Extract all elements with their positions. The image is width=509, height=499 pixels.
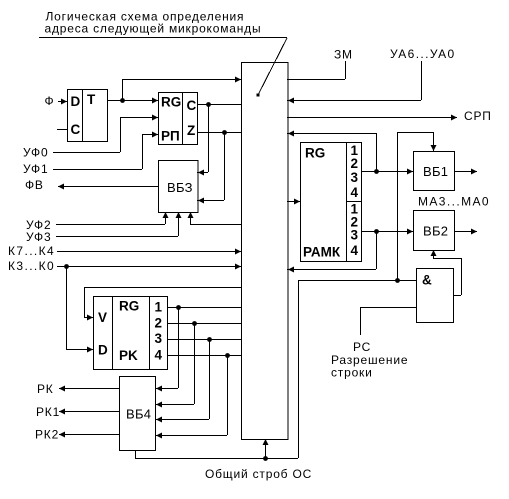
input Ф label xyxy=(45,94,55,108)
wire РК2 output xyxy=(59,432,119,438)
svg-text:РС: РС xyxy=(353,340,371,354)
label RG of RAMK xyxy=(305,146,325,161)
svg-text:РК1: РК1 xyxy=(36,405,60,419)
wire УФ3 to VB3 xyxy=(56,212,182,237)
svg-text:РАМК: РАМК xyxy=(303,245,341,260)
svg-text:ФВ: ФВ xyxy=(25,178,44,192)
label РК2 xyxy=(35,428,59,442)
and gate xyxy=(417,269,454,323)
label УФ0 xyxy=(23,146,48,160)
wire RAMK output 1 branch to decoder xyxy=(287,131,377,172)
label строки xyxy=(331,366,373,380)
wire RAMK output 2 branch to decoder xyxy=(287,231,377,273)
label C output xyxy=(187,98,197,113)
label УФ2 xyxy=(26,218,51,232)
block VB3 xyxy=(159,161,199,213)
wire Z output to decoder xyxy=(197,130,241,135)
svg-text:ВБ2: ВБ2 xyxy=(423,224,448,239)
label Z output xyxy=(187,123,195,138)
svg-text:3: 3 xyxy=(155,331,163,346)
PK pin 3 xyxy=(155,331,163,346)
label RG of PK xyxy=(119,299,139,314)
svg-text:ВБ4: ВБ4 xyxy=(126,407,151,422)
svg-text:1: 1 xyxy=(155,300,163,315)
label К3...К0 xyxy=(8,259,55,273)
title underline xyxy=(39,37,287,39)
wire PK output 2 xyxy=(167,321,241,326)
label VB4 xyxy=(126,407,151,422)
label ЗМ xyxy=(334,48,353,62)
wire decoder to VB3 third input xyxy=(188,212,242,225)
label Разрешение xyxy=(331,353,408,367)
label VB2 xyxy=(423,224,448,239)
svg-text:D: D xyxy=(98,343,108,358)
register RG-RP block xyxy=(159,92,198,145)
label УА6...УА0 xyxy=(390,47,456,61)
wire VB1 output xyxy=(454,169,477,175)
svg-text:К7...К4: К7...К4 xyxy=(8,244,55,258)
wire УФ0 to RG xyxy=(53,115,158,153)
label Общий строб ОС xyxy=(205,467,312,481)
wire decoder to V input xyxy=(84,287,241,321)
PK pin 1 xyxy=(155,300,163,315)
svg-text:К3...К0: К3...К0 xyxy=(8,259,55,273)
wire T output branch to decoder xyxy=(122,77,241,101)
wire СРП output xyxy=(287,115,457,121)
label VB3 xyxy=(167,180,193,195)
wire РК output xyxy=(59,386,119,392)
label К7...К4 xyxy=(8,244,55,258)
wire RAMK output 2 to VB2 xyxy=(361,229,413,235)
svg-text:2: 2 xyxy=(155,316,163,331)
svg-text:4: 4 xyxy=(351,185,359,200)
svg-text:D: D xyxy=(71,94,81,109)
wire VB4 strobe lead xyxy=(135,450,137,458)
svg-text:УФ3: УФ3 xyxy=(26,230,51,244)
svg-text:УФ1: УФ1 xyxy=(23,162,48,176)
svg-text:RG: RG xyxy=(161,95,181,110)
label РС xyxy=(353,340,371,354)
wire and gate output to VB2 xyxy=(431,250,462,296)
wire ФВ output of VB3 xyxy=(58,184,158,190)
wire PK output 1 branch to VB4 xyxy=(155,307,179,392)
svg-text:УФ0: УФ0 xyxy=(23,146,48,160)
RAMK pin 3 group2 xyxy=(351,228,359,243)
block VB4 xyxy=(120,377,156,451)
wire C stub of flip-flop xyxy=(57,129,67,131)
block VB2 xyxy=(414,211,455,251)
label RG of RP register xyxy=(161,95,181,110)
wire decoder to RAMK input xyxy=(287,199,300,205)
PK pin 2 xyxy=(155,316,163,331)
wire strobe to and gate xyxy=(298,278,416,283)
svg-text:2: 2 xyxy=(351,156,359,171)
wire К3...К0 to decoder xyxy=(57,264,241,270)
svg-text:V: V xyxy=(98,310,107,325)
RAMK pin 1 group2 xyxy=(351,202,359,217)
label T xyxy=(87,92,96,107)
svg-text:адреса следующей микрокоманды: адреса следующей микрокоманды xyxy=(45,22,262,36)
RAMK pin 4 group2 xyxy=(351,243,359,258)
label МА3...МА0 xyxy=(418,195,490,209)
label РК xyxy=(37,382,54,396)
RAMK pin 1 group1 xyxy=(351,143,359,158)
label V xyxy=(98,310,107,325)
wire strobe riser xyxy=(298,280,300,458)
wire strobe branch up to VB1 xyxy=(397,132,437,280)
svg-text:РК: РК xyxy=(37,382,54,396)
title line 2 xyxy=(45,22,262,36)
label РК1 xyxy=(36,405,60,419)
wire УФ2 to VB3 xyxy=(56,212,169,225)
wire К7...К4 to decoder xyxy=(57,249,241,255)
central decoder block U1 xyxy=(242,63,289,440)
label СРП xyxy=(464,109,492,123)
svg-text:RG: RG xyxy=(119,299,139,314)
RAMK pin 4 group1 xyxy=(351,185,359,200)
svg-text:Общий строб ОС: Общий строб ОС xyxy=(205,467,312,481)
wire РС to and gate xyxy=(360,307,416,335)
wire РК1 output xyxy=(59,409,119,415)
wire VB2 output xyxy=(454,229,477,235)
label ФВ xyxy=(25,178,44,192)
label C of flip-flop xyxy=(71,122,81,137)
label УФ1 xyxy=(23,162,48,176)
svg-text:T: T xyxy=(87,92,96,107)
RAMK pin 3 group1 xyxy=(351,170,359,185)
wire Z branch to VB3 xyxy=(197,132,225,204)
wire ЗМ to decoder xyxy=(287,61,346,80)
wire strobe to decoder bottom xyxy=(263,439,269,458)
svg-text:ВБ1: ВБ1 xyxy=(423,164,448,179)
wire PK output 3 branch to VB4 xyxy=(155,339,210,423)
block VB1 xyxy=(414,152,455,191)
svg-text:RG: RG xyxy=(305,146,325,161)
label and gate xyxy=(422,273,432,288)
label РП xyxy=(161,129,180,144)
label PK xyxy=(119,348,138,363)
wire C output to decoder xyxy=(197,102,241,107)
wire RAMK output 1 to VB1 xyxy=(361,169,413,175)
wire C branch to VB3 xyxy=(197,104,209,176)
svg-text:УА6...УА0: УА6...УА0 xyxy=(390,47,456,61)
svg-text:ЗМ: ЗМ xyxy=(334,48,353,62)
wire common strobe horizontal xyxy=(135,456,298,461)
RAMK pin 2 group1 xyxy=(351,156,359,171)
label D of PK xyxy=(98,343,108,358)
wire К3...К0 branch to D input xyxy=(66,266,93,353)
svg-text:РП: РП xyxy=(161,129,180,144)
svg-text:3: 3 xyxy=(351,228,359,243)
wire PK output 3 xyxy=(167,337,241,342)
svg-text:3: 3 xyxy=(351,170,359,185)
register RG-RAMK block xyxy=(301,142,362,262)
svg-text:МА3...МА0: МА3...МА0 xyxy=(418,195,490,209)
svg-text:ВБЗ: ВБЗ xyxy=(167,180,193,195)
svg-text:СРП: СРП xyxy=(464,109,492,123)
svg-text:C: C xyxy=(187,98,197,113)
label УФ3 xyxy=(26,230,51,244)
wire PK output 4 branch to VB4 xyxy=(155,355,228,439)
PK pin 4 xyxy=(155,348,163,363)
register RG-PK block xyxy=(94,296,168,370)
wire УА6...УА0 to decoder xyxy=(287,61,422,104)
wire T output to RG xyxy=(107,98,158,104)
wire Ф input xyxy=(58,99,67,105)
wire PK output 2 branch to VB4 xyxy=(155,323,195,408)
wire PK output 4 xyxy=(167,353,241,358)
svg-text:C: C xyxy=(71,122,81,137)
wire PK output 1 xyxy=(167,305,241,310)
svg-text:Z: Z xyxy=(187,123,195,138)
svg-text:РК2: РК2 xyxy=(35,428,59,442)
label VB1 xyxy=(423,164,448,179)
svg-text:строки: строки xyxy=(331,366,373,380)
svg-text:4: 4 xyxy=(351,243,359,258)
svg-text:&: & xyxy=(422,273,432,288)
svg-text:PK: PK xyxy=(119,348,138,363)
label D xyxy=(71,94,81,109)
svg-text:4: 4 xyxy=(155,348,163,363)
label РАМК xyxy=(303,245,341,260)
flip-flop D-T block xyxy=(68,89,108,142)
svg-text:Ф: Ф xyxy=(45,94,55,108)
title line 1 xyxy=(46,10,245,24)
wire УФ1 to РП xyxy=(53,132,158,170)
leader line to decoder block xyxy=(257,38,288,97)
RAMK pin 2 group2 xyxy=(351,215,359,230)
